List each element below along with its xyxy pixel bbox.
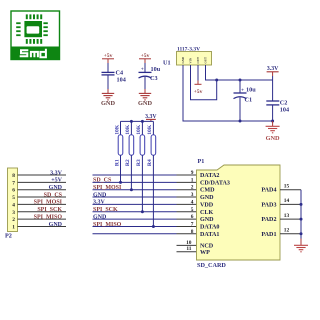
svg-text:7: 7 (191, 221, 194, 227)
svg-text:C2: C2 (280, 99, 288, 106)
wire PAD1 (pin 12) (280, 233, 301, 235)
node R2/SPI_MOSI (130, 188, 133, 191)
svg-text:5: 5 (191, 207, 194, 213)
wire net DATA1 (pin 8) (93, 233, 177, 235)
svg-text:10K: 10K (147, 124, 153, 135)
svg-text:SD_CARD: SD_CARD (197, 262, 226, 269)
ground GND (C4) (101, 89, 115, 107)
svg-text:1: 1 (191, 177, 194, 183)
svg-text:SD_CS: SD_CS (44, 192, 63, 198)
svg-text:P1: P1 (198, 158, 205, 165)
svg-text:14: 14 (284, 198, 290, 204)
pin numbers P1 right (284, 184, 290, 234)
node rail/R3 (141, 120, 144, 123)
wire C1 top (239, 80, 241, 93)
svg-text:C1: C1 (245, 97, 253, 104)
node pad2 (300, 218, 303, 221)
svg-text:10u: 10u (151, 66, 161, 73)
wire net DATA2 (pin 9) (93, 174, 177, 176)
svg-text:3.3V: 3.3V (267, 66, 279, 72)
svg-text:8: 8 (191, 229, 194, 235)
svg-text:SD_CS: SD_CS (93, 178, 112, 184)
net labels P2 (34, 170, 63, 227)
resistor R3 10K (136, 121, 145, 211)
svg-text:PAD1: PAD1 (261, 232, 276, 238)
svg-text:7: 7 (12, 180, 15, 186)
svg-text:SPI_MOSI: SPI_MOSI (93, 185, 122, 191)
svg-text:GND: GND (200, 217, 214, 223)
svg-text:R3: R3 (136, 159, 142, 166)
svg-text:GND: GND (49, 185, 63, 191)
svg-text:CD/DATA3: CD/DATA3 (200, 180, 230, 186)
svg-text:3.3V: 3.3V (93, 200, 106, 206)
wire pads vertical (300, 190, 302, 239)
wire P2 pin5 (18, 196, 67, 198)
resistor R4 10K (147, 121, 156, 226)
svg-text:PAD4: PAD4 (261, 188, 276, 194)
svg-text:DATA0: DATA0 (200, 224, 219, 230)
svg-text:3: 3 (12, 210, 15, 216)
svg-text:VIN: VIN (189, 57, 193, 63)
svg-text:U1: U1 (163, 59, 171, 66)
svg-text:SPI_SCK: SPI_SCK (37, 207, 62, 213)
power 3.3V flag (pull-ups) (145, 114, 157, 121)
wire PAD2 (pin 13) (280, 218, 301, 220)
wire P2 pin1 (18, 225, 67, 227)
svg-text:SPI_SCK: SPI_SCK (93, 207, 118, 213)
resistor R1 10K (114, 121, 122, 182)
node rail/pin2 (215, 79, 218, 82)
svg-text:5: 5 (12, 195, 15, 201)
svg-text:NCD: NCD (200, 243, 214, 249)
node rail/C1 (239, 79, 242, 82)
svg-text:GND: GND (266, 135, 280, 142)
wire P2 pin6 (18, 189, 67, 191)
node R1/SD_CS (119, 181, 122, 184)
wire U1 pin1 to ground rail (183, 65, 273, 121)
ground GND (regulator) (266, 121, 280, 142)
wire +5v to C4 (107, 63, 109, 72)
wire pull-up top rail (121, 120, 154, 122)
svg-text:R4: R4 (147, 159, 153, 166)
regulator U1 1117-3.3V (163, 47, 212, 67)
svg-text:SPI_MOSI: SPI_MOSI (34, 200, 63, 206)
wire U1 pin4 3.3V rail (206, 65, 273, 80)
svg-text:+: + (241, 88, 244, 93)
wire net SPI_MISO (pin 7) (93, 225, 177, 227)
wire C2 bottom (272, 105, 274, 121)
svg-text:10K: 10K (114, 124, 120, 135)
svg-text:6: 6 (191, 214, 194, 220)
svg-text:GND: GND (49, 222, 63, 228)
svg-text:OUT: OUT (196, 57, 200, 64)
svg-text:+5v: +5v (194, 89, 203, 95)
node R3/SPI_SCK (141, 210, 144, 213)
svg-text:3: 3 (191, 192, 194, 198)
ground GND (C3) (138, 89, 152, 107)
node rail/R2 (130, 120, 133, 123)
svg-text:11: 11 (186, 246, 191, 252)
power +5v flag (C4) (102, 53, 114, 63)
svg-text:SPI_MISO: SPI_MISO (34, 214, 63, 220)
wire net NCD (pin 10) (177, 244, 197, 246)
capacitor C1 (polarized) (234, 87, 257, 104)
svg-text:WP: WP (200, 250, 210, 256)
svg-text:R1: R1 (114, 159, 120, 166)
svg-text:VDD: VDD (200, 202, 214, 208)
wire net SD_CS (pin 1) (93, 181, 177, 183)
wire PAD3 (pin 14) (280, 203, 301, 205)
svg-text:OUT: OUT (204, 57, 208, 64)
svg-text:4: 4 (12, 202, 15, 208)
svg-text:10u: 10u (246, 87, 256, 94)
wire net GND (pin 6) (93, 218, 177, 220)
wire 3.3V flag to rail (272, 76, 274, 101)
wire net 3.3V (pin 4) (93, 203, 177, 205)
wire P2 pin2 (18, 218, 67, 220)
wire PAD4 (pin 15) (280, 189, 301, 191)
power 3.3V flag (U1 output) (267, 66, 280, 76)
svg-text:GND: GND (101, 100, 115, 107)
node pad3 (300, 203, 303, 206)
resistor R2 10K (125, 121, 134, 189)
capacitor C4 (102, 70, 126, 84)
svg-text:1: 1 (12, 224, 15, 230)
wire U1 pin2 to 3.3V rail (191, 65, 217, 100)
svg-text:10: 10 (186, 240, 192, 246)
wire C1 bottom (239, 97, 241, 121)
wire U1 pin3 (197, 65, 199, 81)
net labels bus (93, 178, 122, 228)
svg-text:GND: GND (200, 195, 214, 201)
SD card connector P1 (197, 158, 281, 269)
svg-text:SPI_MISO: SPI_MISO (93, 222, 122, 228)
svg-text:10K: 10K (136, 124, 142, 135)
wire P2 pin8 (18, 174, 67, 176)
svg-text:3.3V: 3.3V (50, 170, 63, 176)
svg-text:2: 2 (191, 185, 194, 191)
node pad1 (300, 232, 303, 235)
svg-text:GND: GND (93, 214, 107, 220)
capacitor C3 (polarized) (139, 66, 161, 82)
svg-text:C3: C3 (150, 75, 158, 82)
svg-text:CLK: CLK (200, 210, 213, 216)
svg-text:6: 6 (12, 188, 15, 194)
svg-text:104: 104 (117, 76, 126, 83)
wire P2 pin3 (18, 211, 67, 213)
wire net SPI_SCK (pin 5) (93, 211, 177, 213)
svg-text:DATA1: DATA1 (200, 232, 219, 238)
ground GND (pads) (294, 239, 308, 252)
svg-text:+5V: +5V (51, 178, 62, 184)
power +5v flag (U1) (194, 81, 203, 96)
svg-text:P2: P2 (5, 233, 12, 240)
svg-text:GND: GND (93, 192, 107, 198)
svg-text:4: 4 (191, 199, 194, 205)
svg-text:GND: GND (181, 56, 185, 64)
svg-text:+: + (141, 68, 144, 73)
svg-text:13: 13 (284, 213, 290, 219)
capacitor C2 (266, 99, 289, 113)
svg-text:DATA2: DATA2 (200, 173, 219, 179)
power +5v flag (C3) (139, 53, 151, 63)
svg-text:104: 104 (280, 106, 289, 113)
node ground rail/C1 (239, 120, 242, 123)
connector P2 (5, 168, 18, 240)
wire P2 pin7 (18, 181, 67, 183)
svg-text:8: 8 (12, 173, 15, 179)
pin numbers P1 left (186, 170, 194, 252)
wire +5v to C3 (144, 63, 146, 72)
wire C4 to GND (107, 75, 109, 89)
svg-text:12: 12 (284, 228, 290, 234)
svg-text:2: 2 (12, 217, 15, 223)
svg-text:GND: GND (138, 100, 152, 107)
wire net GND (pin 3) (93, 196, 177, 198)
node ground rail end (271, 120, 274, 123)
svg-text:15: 15 (284, 184, 290, 190)
wire net WP (pin 11) (177, 251, 197, 253)
node R4/SPI_MISO (152, 225, 155, 228)
svg-text:PAD2: PAD2 (261, 217, 276, 223)
svg-text:CMD: CMD (200, 188, 215, 194)
svg-text:PAD3: PAD3 (261, 202, 276, 208)
svg-text:R2: R2 (125, 159, 131, 166)
svg-text:9: 9 (191, 170, 194, 176)
wire C3 to GND (144, 77, 146, 89)
wire P2 pin4 (18, 203, 67, 205)
svg-text:10K: 10K (125, 124, 131, 135)
wire net SPI_MOSI (pin 2) (93, 189, 177, 191)
logo Smd (11, 11, 60, 60)
